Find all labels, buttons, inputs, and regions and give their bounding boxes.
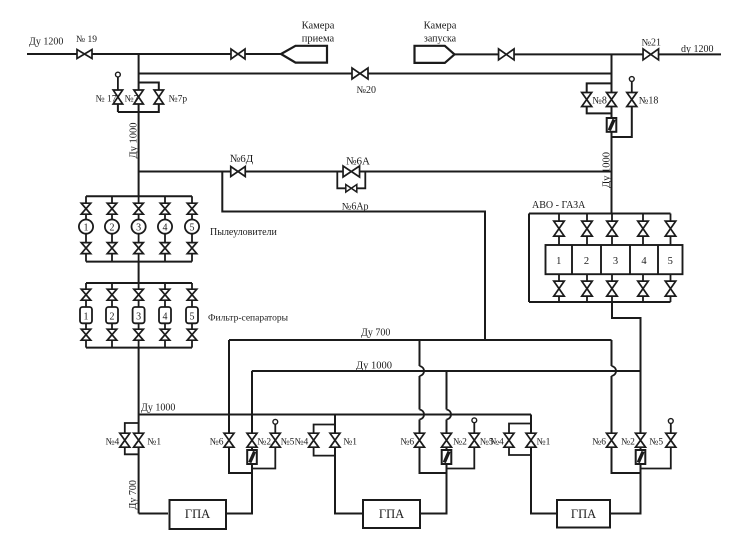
- valve above ABO unit 5: [670, 214, 672, 221]
- hop unit2 №6 over suction header: [420, 410, 425, 420]
- svg-text:№5: №5: [649, 438, 663, 448]
- svg-text:Камера: Камера: [424, 21, 457, 32]
- wire right vertical upper: [611, 54, 613, 93]
- valve №20: [352, 68, 368, 79]
- wire line A exit right: [659, 53, 722, 55]
- valve below filter separator 5: [191, 323, 193, 329]
- valve below ABO unit 4: [642, 274, 644, 281]
- svg-text:2: 2: [584, 256, 589, 267]
- wire unit1 suction into GPA: [139, 513, 168, 515]
- vent of №5 (unit1): [273, 419, 278, 424]
- wire №8 bypass bottom bracket: [587, 107, 612, 114]
- valve above ABO unit 1: [558, 214, 560, 221]
- wire №4 bypass bottom (unit3): [509, 447, 531, 455]
- wire unit3 №6 down to join: [612, 447, 641, 473]
- wire unit3 №2 riser to ABO jog: [640, 371, 642, 433]
- regulator (station): [607, 118, 617, 132]
- wire header Ду 1000 discharge: [252, 370, 641, 372]
- svg-text:№1: №1: [537, 438, 551, 448]
- svg-text:запуска: запуска: [424, 34, 457, 45]
- svg-text:№1: №1: [343, 438, 357, 448]
- svg-text:Пылеуловители: Пылеуловители: [210, 227, 278, 238]
- regulator (unit3): [636, 450, 646, 464]
- svg-text:ГПА: ГПА: [379, 507, 404, 521]
- wire №17 to bracket: [117, 104, 119, 112]
- wire unit3 №5 down to join: [641, 447, 671, 468]
- valve below ABO unit 1: [558, 274, 560, 281]
- filter separator 3: [133, 307, 145, 323]
- filter separator 4: [159, 307, 171, 323]
- valve №4 (unit2): [309, 433, 319, 447]
- wire unit1 discharge from GPA: [227, 464, 252, 514]
- wire unit1 suction riser lower: [138, 447, 140, 513]
- svg-text:приема: приема: [302, 34, 335, 45]
- valve №2 (unit3): [636, 433, 646, 447]
- svg-text:1: 1: [84, 312, 89, 323]
- svg-text:№2: №2: [257, 438, 271, 448]
- hop unit2 №2 over suction header: [447, 410, 452, 420]
- svg-text:3: 3: [136, 312, 141, 323]
- wire №4 bypass bracket (unit1): [125, 423, 139, 433]
- svg-text:№7р: №7р: [169, 95, 188, 105]
- wire unit2 suction riser upper: [334, 415, 336, 434]
- chamber Камера запуска: [415, 46, 455, 63]
- wire №6А bypass loop: [337, 172, 365, 189]
- wire line A chamber to valve: [455, 53, 499, 55]
- svg-text:3: 3: [613, 256, 618, 267]
- filter separator 5: [186, 307, 198, 323]
- wire unit3 regulator to №2: [640, 447, 642, 450]
- svg-text:№6Д: №6Д: [230, 153, 254, 165]
- valve above dust collector 5: [191, 196, 193, 203]
- valve №1 (unit1): [134, 433, 144, 447]
- valve above dust collector 3: [138, 196, 140, 203]
- wire line C middle: [245, 171, 343, 173]
- svg-text:№6: №6: [592, 438, 606, 448]
- svg-text:№6А: №6А: [346, 156, 370, 168]
- svg-text:№2: №2: [621, 438, 635, 448]
- wire unit3 discharge from GPA: [610, 464, 641, 514]
- valve №7: [134, 90, 144, 104]
- svg-text:Ду 1200: Ду 1200: [29, 37, 63, 48]
- wire line D (reserve) down-right-down: [222, 172, 485, 341]
- svg-text:Ду 700: Ду 700: [361, 328, 390, 339]
- valve №1 (unit3): [526, 433, 536, 447]
- dust collector 1 (cyclone): [79, 220, 93, 234]
- svg-text:№ 19: № 19: [76, 35, 97, 45]
- valve №1 (unit2): [330, 433, 340, 447]
- valve №8: [607, 93, 617, 107]
- svg-text:№21: №21: [642, 38, 662, 49]
- wire main line A left segment: [27, 53, 77, 55]
- hop unit2 №6 over discharge header: [420, 366, 425, 376]
- svg-text:3: 3: [136, 222, 141, 233]
- wire left vertical upper: [138, 54, 140, 90]
- svg-text:№4: №4: [105, 438, 119, 448]
- wire unit3 suction riser upper: [530, 415, 532, 434]
- valve №6 (unit3): [607, 433, 617, 447]
- valve above ABO unit 2: [586, 214, 588, 221]
- wire unit1 №6 down to join: [229, 447, 252, 473]
- dust collector 2 (cyclone): [105, 220, 119, 234]
- valve below dust collector 4: [164, 234, 166, 243]
- dust collector 4 (cyclone): [158, 220, 172, 234]
- svg-text:1: 1: [84, 222, 89, 233]
- svg-text:Фильтр-сепараторы: Фильтр-сепараторы: [208, 314, 289, 324]
- wire №4 bypass bracket (unit2): [314, 425, 335, 434]
- wire unit2 №6 riser segment c: [419, 420, 421, 434]
- svg-text:№6: №6: [400, 438, 414, 448]
- wire filter separators bottom header: [86, 347, 192, 349]
- svg-text:№4: №4: [490, 438, 504, 448]
- valve below ABO unit 3: [611, 274, 613, 281]
- wire line C to right riser: [360, 171, 612, 173]
- wire ABO outlet jog to discharge riser: [612, 302, 641, 371]
- valve above dust collector 2: [111, 196, 113, 203]
- valve №4 (unit3): [504, 433, 514, 447]
- wire ABO top header: [529, 213, 671, 215]
- svg-text:5: 5: [668, 256, 673, 267]
- svg-text:Ду 1000: Ду 1000: [141, 403, 175, 414]
- wire main riser filters to suction header: [138, 348, 140, 415]
- wire №4 bypass bottom (unit1): [125, 447, 139, 454]
- valve №6Ар: [346, 185, 357, 193]
- valve below dust collector 5: [191, 234, 193, 243]
- valve №6 (unit1): [224, 433, 234, 447]
- wire right vertical below regulator: [611, 132, 613, 214]
- valve at launch chamber: [499, 49, 515, 60]
- valve below filter separator 3: [138, 323, 140, 329]
- valve at receiving chamber: [231, 49, 245, 59]
- svg-text:Камера: Камера: [302, 21, 335, 32]
- svg-text:№5: №5: [281, 438, 295, 448]
- wire №7р bottom bracket: [118, 104, 159, 112]
- GPA unit 1 box: [170, 500, 227, 529]
- svg-text:№4: №4: [294, 438, 308, 448]
- valve below filter separator 2: [111, 323, 113, 329]
- valve №6Д: [231, 167, 246, 177]
- GPA unit 2 box: [363, 500, 420, 528]
- wire left vertical below №7: [138, 104, 140, 196]
- valve above dust collector 4: [164, 196, 166, 203]
- svg-text:4: 4: [641, 256, 647, 267]
- wire №7р top bracket: [139, 83, 159, 91]
- valve below dust collector 2: [111, 234, 113, 243]
- svg-text:5: 5: [190, 222, 195, 233]
- vent of №5 (unit2): [472, 418, 477, 423]
- wire line A to receiving chamber: [92, 53, 231, 55]
- wire №4 bypass bracket (unit3): [509, 424, 531, 434]
- wire unit1 regulator to №2: [251, 447, 253, 450]
- hop unit3 №6 over discharge header: [612, 366, 617, 376]
- GPA unit 3 box: [557, 500, 610, 528]
- wire bypass line B left: [139, 73, 352, 75]
- valve №2 (unit2): [442, 433, 452, 447]
- wire unit2 №6 down to join: [420, 447, 447, 473]
- valve above filter separator 2: [111, 283, 113, 289]
- wire unit1 №2 riser to header: [251, 371, 253, 433]
- chamber Камера приема: [281, 46, 327, 63]
- svg-text:2: 2: [110, 222, 115, 233]
- wire №18 down and to riser: [612, 107, 632, 138]
- regulator (unit1): [247, 450, 257, 464]
- svg-text:5: 5: [190, 312, 195, 323]
- filter separator 1: [80, 307, 92, 323]
- vent of №18: [629, 77, 634, 82]
- svg-text:dy 1200: dy 1200: [681, 44, 714, 55]
- svg-text:Ду 1000: Ду 1000: [356, 361, 392, 372]
- svg-text:№6: №6: [210, 438, 224, 448]
- svg-text:Ду 1000: Ду 1000: [128, 122, 139, 158]
- valve above filter separator 5: [191, 283, 193, 289]
- svg-text:№ 17: № 17: [96, 95, 117, 105]
- ABO unit boxes row: [546, 245, 683, 274]
- valve below dust collector 1: [85, 234, 87, 243]
- wire line C from left vertical: [139, 171, 231, 173]
- svg-text:№18: №18: [639, 96, 659, 107]
- svg-text:№2: №2: [453, 438, 467, 448]
- vent of №17: [116, 72, 121, 77]
- wire right vertical №8 to regulator: [611, 107, 613, 119]
- wire unit1 suction riser upper: [138, 415, 140, 434]
- vent of №5 (unit3): [668, 419, 673, 424]
- wire dust collectors top header: [86, 195, 192, 197]
- svg-text:ГПА: ГПА: [185, 507, 210, 521]
- valve above dust collector 1: [85, 196, 87, 203]
- valve №8 bypass: [582, 93, 592, 107]
- svg-text:1: 1: [556, 256, 561, 267]
- wire ABO left side: [528, 214, 530, 303]
- wire main riser dust collectors to filters: [138, 262, 140, 283]
- valve above filter separator 1: [85, 283, 87, 289]
- svg-text:№20: №20: [357, 85, 377, 96]
- valve below ABO unit 5: [670, 274, 672, 281]
- regulator (unit2): [442, 450, 452, 464]
- valve below filter separator 4: [164, 323, 166, 329]
- wire unit3 №6 riser segment b: [611, 376, 613, 433]
- svg-text:№7: №7: [125, 95, 139, 105]
- valve №5 (unit1): [270, 433, 280, 447]
- valve above filter separator 3: [138, 283, 140, 289]
- svg-text:Ду 700: Ду 700: [128, 480, 139, 509]
- svg-text:№8: №8: [592, 96, 607, 107]
- wire unit2 suction riser lower: [335, 447, 363, 513]
- valve №18: [627, 93, 637, 107]
- dust collector 3 (cyclone): [132, 220, 146, 234]
- svg-text:ГПА: ГПА: [571, 507, 596, 521]
- dust collector 5 (cyclone): [185, 220, 199, 234]
- valve №17: [113, 90, 123, 104]
- valve above ABO unit 3: [611, 214, 613, 221]
- wire line A valve to chamber point: [245, 53, 281, 55]
- valve №2 (unit1): [247, 433, 257, 447]
- wire unit2 №2 riser segment b: [446, 371, 448, 410]
- wire header Ду 700: [229, 339, 612, 341]
- wire ABO bottom header: [529, 301, 671, 303]
- wire unit2 №2 riser segment a: [446, 420, 448, 434]
- wire bypass line B right: [368, 73, 612, 75]
- wire unit1 №5 down to join: [252, 447, 275, 468]
- wire unit2 №5 down to join: [447, 447, 475, 468]
- svg-text:АВО - ГАЗА: АВО - ГАЗА: [532, 200, 586, 211]
- wire unit2 №6 riser segment a: [419, 340, 421, 366]
- valve below dust collector 3: [138, 234, 140, 243]
- valve №5 (unit3): [666, 433, 676, 447]
- filter separator 2: [106, 307, 118, 323]
- valve above filter separator 4: [164, 283, 166, 289]
- wire №4 bypass bottom (unit2): [314, 447, 335, 455]
- wire unit2 regulator to №2: [446, 447, 448, 450]
- svg-text:Ду 1000: Ду 1000: [602, 152, 613, 188]
- wire unit3 suction riser lower: [531, 447, 557, 513]
- valve №4 (unit1): [120, 433, 130, 447]
- wire line A valve to node R: [514, 53, 612, 55]
- wire unit2 №6 riser segment b: [419, 376, 421, 410]
- wire suction header Ду 1000: [139, 414, 531, 416]
- valve below ABO unit 2: [586, 274, 588, 281]
- valve above ABO unit 4: [642, 214, 644, 221]
- wire №8 bypass top bracket: [587, 83, 612, 92]
- valve №21: [643, 49, 659, 60]
- valve №5 (unit2): [469, 433, 479, 447]
- valve №6А: [343, 166, 360, 177]
- wire unit1 №6 riser: [228, 340, 230, 433]
- valve №6 (unit2): [415, 433, 425, 447]
- valve №19: [77, 50, 92, 59]
- valve №7р: [154, 90, 164, 104]
- svg-text:2: 2: [110, 312, 115, 323]
- wire line A node R to №21: [612, 53, 644, 55]
- wire unit3 №6 riser segment a: [611, 340, 613, 366]
- svg-text:№1: №1: [147, 438, 161, 448]
- wire unit2 discharge from GPA: [420, 464, 447, 514]
- wire dust collectors bottom header: [86, 261, 192, 263]
- valve below filter separator 1: [85, 323, 87, 329]
- svg-text:4: 4: [163, 312, 168, 323]
- svg-text:4: 4: [163, 222, 168, 233]
- wire filter separators top header: [86, 282, 192, 284]
